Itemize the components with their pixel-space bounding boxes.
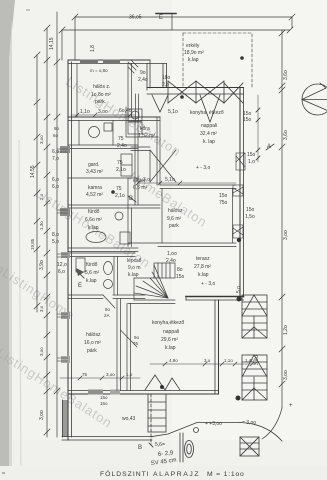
svg-text:9o: 9o: [134, 335, 140, 340]
terrace south wall: [186, 296, 244, 298]
svg-text:ALAPRAJZ: ALAPRAJZ: [153, 471, 200, 478]
svg-text:hálósz: hálósz: [168, 208, 183, 214]
svg-text:9,6 m²: 9,6 m²: [167, 216, 182, 222]
junction dots: [237, 238, 241, 242]
svg-text:kőra: kőra: [140, 126, 150, 132]
wc room below: [78, 121, 80, 146]
svg-text:15o: 15o: [246, 207, 255, 213]
blue caption: [100, 470, 245, 478]
svg-text:k.lap: k.lap: [86, 278, 97, 284]
left dim line 3: [56, 12, 58, 437]
svg-text:kamra: kamra: [88, 185, 102, 191]
elöter2 region walls: [127, 208, 129, 247]
svg-text:6,o: 6,o: [52, 177, 59, 183]
dim line y378: [60, 377, 140, 379]
svg-text:E: E: [78, 283, 82, 289]
svg-text:6,6o m²: 6,6o m²: [85, 217, 102, 223]
halosz16 right wall: [116, 299, 118, 391]
svg-text:park.: park.: [95, 99, 106, 105]
svg-text:+ - 3,o: + - 3,o: [201, 281, 216, 287]
svg-text:3,oo: 3,oo: [106, 372, 115, 377]
erkely balcony dashed outline: [183, 33, 252, 87]
svg-text:gard.: gard.: [88, 162, 99, 168]
scan speck marks: [26, 9, 30, 11]
svg-text:5,6 m²: 5,6 m²: [85, 270, 100, 276]
glazing X pattern: [168, 81, 196, 103]
svg-text:k.lap: k.lap: [165, 345, 176, 351]
svg-text:18,9o m²: 18,9o m²: [184, 50, 204, 56]
svg-text:1,4o: 1,4o: [245, 358, 254, 363]
wall y295: [68, 294, 103, 296]
svg-text:3,9o: 3,9o: [39, 260, 45, 270]
svg-text:5,1o: 5,1o: [168, 109, 178, 115]
svg-text:1o,8o m²: 1o,8o m²: [91, 92, 111, 98]
svg-text:1,o: 1,o: [248, 159, 255, 165]
door swing triangles below window band: [200, 95, 220, 122]
svg-text:3,oo: 3,oo: [39, 347, 44, 356]
svg-text:6,5 m²: 6,5 m²: [133, 185, 148, 191]
svg-text:3,43 m²: 3,43 m²: [86, 169, 103, 175]
svg-text:19,85: 19,85: [30, 238, 35, 250]
bottom scan strip: [0, 466, 327, 480]
svg-text:1,o: 1,o: [126, 372, 133, 377]
svg-text:hálós z.: hálós z.: [93, 84, 110, 90]
kamra room: [68, 204, 160, 206]
svg-text:wo,43: wo,43: [122, 416, 136, 422]
svg-text:15o: 15o: [243, 117, 252, 123]
svg-text:8o: 8o: [177, 267, 183, 273]
svg-text:B: B: [138, 445, 142, 451]
svg-text:3,oo: 3,oo: [39, 410, 45, 420]
svg-text:2,1o: 2,1o: [115, 193, 125, 199]
svg-text:3,oo: 3,oo: [283, 370, 289, 380]
svg-text:15o: 15o: [100, 401, 108, 406]
elöter walls: [128, 177, 131, 179]
svg-text:9o: 9o: [105, 307, 111, 312]
section marker E left: [76, 270, 84, 278]
top dimension line 36,05: [75, 16, 292, 18]
top window wall right part: [147, 87, 244, 89]
hatched porch wall strip: [63, 400, 68, 437]
svg-text:29,6 m²: 29,6 m²: [161, 337, 178, 343]
svg-text:18o: 18o: [162, 75, 171, 81]
svg-text:15o: 15o: [100, 395, 108, 400]
svg-text:E: E: [159, 15, 163, 21]
svg-text:3,o: 3,o: [143, 177, 150, 183]
svg-text:m = o,8o: m = o,8o: [90, 68, 108, 73]
room labels: [57, 43, 256, 427]
svg-text:3,oo: 3,oo: [39, 135, 44, 144]
svg-text:75: 75: [117, 160, 123, 166]
svg-text:2,o: 2,o: [162, 82, 169, 88]
svg-text:76: 76: [133, 341, 139, 346]
bottom wall: [68, 390, 219, 392]
interior wall y147-150 x128-150: [131, 146, 150, 148]
svg-text:32,4 m²: 32,4 m²: [200, 131, 217, 137]
svg-text:15o: 15o: [219, 193, 228, 199]
svg-text:fürdő: fürdő: [88, 209, 100, 215]
entry porch steps: [148, 394, 166, 432]
watermark ListingHomeBalaton: [0, 74, 260, 480]
svg-text:14,55: 14,55: [30, 165, 36, 178]
svg-text:12,o: 12,o: [57, 262, 67, 268]
lower right wall: [214, 300, 216, 394]
left scanner edge band: [0, 0, 15, 480]
svg-text:5,o: 5,o: [52, 239, 59, 245]
dim line right of wall: [257, 95, 259, 162]
faint page edge line lower left: [19, 140, 21, 480]
dim line y115: [71, 114, 135, 116]
svg-text:+ +3,oo: + +3,oo: [205, 421, 222, 427]
svg-text:9,o m: 9,o m: [128, 265, 141, 271]
svg-text:36,o5: 36,o5: [129, 15, 142, 21]
kitchen upper wall: [135, 94, 137, 121]
windows in bottom wall: [88, 390, 103, 395]
svg-text:2A: 2A: [104, 313, 110, 318]
svg-text:3,6o: 3,6o: [283, 70, 289, 80]
svg-text:1,oo: 1,oo: [167, 251, 177, 257]
bathroom 6,60: [68, 247, 138, 249]
svg-text:erkély: erkély: [186, 43, 200, 49]
right exterior stair upper: [242, 295, 267, 338]
svg-text:5,1o: 5,1o: [165, 177, 175, 183]
svg-text:FÖLDSZINTI: FÖLDSZINTI: [100, 470, 150, 478]
second top dimension line: [62, 29, 290, 31]
dim line y364: [150, 363, 256, 365]
svg-text:8,o: 8,o: [52, 232, 59, 238]
svg-text:1,1o: 1,1o: [224, 358, 233, 363]
rotated dims: [30, 37, 289, 420]
svg-text:park: park: [169, 223, 179, 229]
svg-text:1,3o: 1,3o: [39, 221, 44, 230]
svg-text:3,oo: 3,oo: [283, 230, 289, 240]
stair block: [135, 299, 176, 301]
svg-text:1,2o: 1,2o: [283, 325, 289, 335]
right outer wall: [239, 88, 241, 297]
svg-text:75: 75: [116, 186, 122, 192]
right wall window hatches: [233, 153, 245, 238]
outer left wall: [67, 60, 69, 440]
svg-text:hálósz: hálósz: [86, 332, 101, 338]
gard room: [68, 177, 138, 179]
svg-text:6,o: 6,o: [58, 269, 65, 275]
corridor walls: [134, 121, 136, 206]
door swings bottom wall: [145, 375, 165, 390]
kitchen counter: [126, 107, 158, 137]
section marker B: [128, 196, 136, 202]
svg-text:2,4o: 2,4o: [138, 77, 148, 83]
dimension labels: [52, 15, 293, 452]
svg-text:nappali: nappali: [163, 329, 179, 335]
door swing X hall: [150, 150, 176, 182]
svg-text:+: +: [289, 403, 293, 409]
svg-text:6o: 6o: [53, 133, 59, 138]
E marker top: [156, 13, 176, 15]
svg-text:3,6o: 3,6o: [254, 355, 260, 365]
fence line right part: [152, 423, 240, 437]
corridor wall x131: [126, 304, 128, 391]
bath 5,6 walls: [68, 252, 135, 254]
curve from dim line to lower stair: [262, 408, 282, 439]
svg-text:2,4o: 2,4o: [166, 258, 176, 264]
svg-text:15o: 15o: [176, 274, 185, 280]
svg-text:nappali: nappali: [201, 123, 217, 129]
svg-text:M = 1:1oo: M = 1:1oo: [207, 471, 245, 478]
svg-text:5,6=: 5,6=: [155, 442, 165, 448]
blue handwriting: [150, 450, 177, 467]
svg-text:4,9o: 4,9o: [169, 358, 178, 363]
svg-text:2,o: 2,o: [39, 193, 44, 200]
window in top wall: [80, 60, 98, 65]
entry post and oval: [179, 433, 181, 462]
top-left room walls: [76, 64, 78, 118]
left main dim line: [46, 28, 48, 437]
svg-text:k.lap: k.lap: [128, 272, 139, 278]
svg-text:6o,4o: 6o,4o: [119, 108, 132, 114]
svg-text:k.lap: k.lap: [88, 225, 99, 231]
svg-text:= 3,oo: = 3,oo: [242, 420, 256, 426]
section marker A right: [266, 144, 274, 150]
svg-text:14,15: 14,15: [49, 37, 55, 50]
svg-text:fürdő: fürdő: [86, 262, 98, 268]
dashed dim line y183: [138, 182, 236, 184]
svg-text:75: 75: [118, 136, 124, 142]
svg-text:2,4o: 2,4o: [117, 143, 127, 149]
left wall window marks: [60, 146, 70, 153]
svg-text:15o: 15o: [247, 152, 256, 158]
right dim line: [281, 30, 283, 408]
svg-text:1,5o: 1,5o: [245, 214, 255, 220]
svg-text:2,1o: 2,1o: [116, 167, 126, 173]
halosz 9,6 room: [160, 184, 236, 186]
svg-text:+ - 3,o: + - 3,o: [196, 165, 211, 171]
svg-text:16,o m²: 16,o m²: [84, 340, 101, 346]
svg-text:6,o: 6,o: [52, 184, 59, 190]
top wall left part: [68, 59, 150, 61]
svg-text:terasz: terasz: [196, 256, 210, 262]
svg-text:1,52 m²: 1,52 m²: [138, 133, 155, 139]
svg-text:7,o: 7,o: [52, 156, 59, 162]
small stair bottom right: [240, 437, 259, 456]
svg-text:k.lap: k.lap: [188, 57, 199, 63]
svg-text:9o: 9o: [140, 70, 146, 76]
closet in gard room: [121, 154, 132, 176]
svg-text:konyha, étkező: konyha, étkező: [190, 110, 224, 116]
svg-text:3,6o: 3,6o: [283, 130, 289, 140]
svg-text:párk: párk: [87, 348, 97, 354]
svg-text:konyha,étkező: konyha,étkező: [152, 320, 184, 326]
step wall x150: [149, 60, 151, 88]
svg-text:75o: 75o: [219, 200, 228, 206]
svg-text:3,o: 3,o: [204, 358, 211, 363]
svg-text:5,o: 5,o: [236, 286, 242, 293]
svg-text:27,8 m²: 27,8 m²: [194, 264, 211, 270]
wall x163 balcony door: [162, 64, 164, 88]
svg-text:k.lap: k.lap: [198, 272, 209, 278]
right exterior stair lower: [242, 355, 267, 400]
svg-text:1,8: 1,8: [90, 45, 96, 52]
north circle: [302, 84, 327, 115]
wall y145: [68, 144, 138, 146]
svg-text:1,1o: 1,1o: [80, 109, 90, 115]
svg-text:3,o: 3,o: [39, 305, 44, 312]
svg-text:lépcső: lépcső: [127, 258, 142, 264]
svg-text:A: A: [267, 144, 271, 150]
porch bottom wall: [62, 436, 152, 438]
svg-text:75: 75: [82, 372, 88, 377]
svg-text:8o: 8o: [54, 126, 60, 131]
svg-text:k. lap: k. lap: [203, 139, 215, 145]
svg-text:4,52 m²: 4,52 m²: [86, 192, 103, 198]
far-left dim line: [36, 55, 38, 312]
svg-text:B: B: [129, 196, 133, 202]
svg-text:3,oo: 3,oo: [98, 109, 108, 115]
wall under top-left room: [68, 116, 160, 118]
